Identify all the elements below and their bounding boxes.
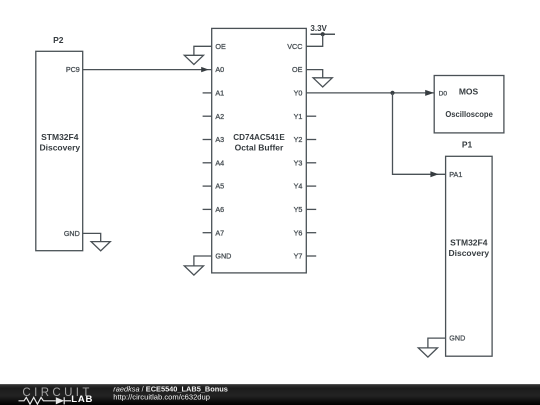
connector P2 STM32F4 Discovery [36, 35, 83, 251]
svg-text:http://circuitlab.com/c632dup: http://circuitlab.com/c632dup [113, 392, 210, 401]
svg-text:OE: OE [292, 65, 303, 74]
wire PC9 to A0 with arrow [83, 67, 212, 72]
ground (IC left OE) [184, 55, 203, 64]
pin OE (left) of IC [215, 42, 226, 51]
wire IC right OE to ground [306, 70, 322, 78]
svg-text:P1: P1 [462, 140, 473, 150]
svg-text:OE: OE [215, 42, 226, 51]
svg-text:Y4: Y4 [294, 182, 303, 191]
pin GND of P1 [449, 333, 465, 342]
IC CD74AC541E Octal Buffer [212, 28, 307, 273]
svg-text:A0: A0 [215, 65, 224, 74]
pin A3 of IC [203, 135, 225, 144]
wire IC GND to ground [194, 256, 212, 266]
svg-text:VCC: VCC [287, 42, 302, 51]
ground (IC GND) [184, 266, 203, 275]
svg-text:A2: A2 [215, 112, 224, 121]
svg-text:PA1: PA1 [449, 170, 462, 179]
pin PC9 of P2 [66, 65, 80, 74]
pin PA1 of P1 [449, 170, 462, 179]
pin A7 of IC [203, 228, 225, 237]
footer credit text [113, 384, 228, 393]
svg-text:Octal Buffer: Octal Buffer [235, 143, 284, 153]
footer url text [113, 392, 210, 401]
pin Y1 of IC [294, 112, 317, 121]
pin Y6 of IC [294, 228, 317, 237]
svg-text:Y2: Y2 [294, 135, 303, 144]
wire 3.3V to VCC [306, 34, 322, 46]
CircuitLab logo CIRCUIT [22, 387, 92, 399]
svg-text:CD74AC541E: CD74AC541E [233, 132, 285, 142]
wire Y0 net down to PA1 with arrow [393, 93, 446, 177]
ground (IC right OE) [313, 78, 332, 87]
svg-text:STM32F4: STM32F4 [450, 238, 488, 248]
svg-text:LAB: LAB [71, 394, 93, 405]
pin Y4 of IC [294, 182, 317, 191]
svg-text:A1: A1 [215, 89, 224, 98]
pin GND of P2 [64, 229, 80, 238]
svg-text:GND: GND [449, 333, 465, 342]
svg-text:Y5: Y5 [294, 205, 303, 214]
svg-text:3.3V: 3.3V [310, 24, 327, 33]
power supply 3.3V [310, 24, 335, 36]
svg-text:PC9: PC9 [66, 65, 80, 74]
svg-text:P2: P2 [53, 35, 64, 45]
svg-text:A6: A6 [215, 205, 224, 214]
svg-text:Y0: Y0 [294, 89, 303, 98]
svg-text:Y7: Y7 [294, 252, 303, 261]
svg-text:A4: A4 [215, 158, 224, 167]
pin Y0 of IC [294, 89, 303, 98]
wire P1 GND to ground [428, 338, 446, 348]
pin A5 of IC [203, 182, 225, 191]
svg-text:Oscilloscope: Oscilloscope [445, 109, 493, 119]
svg-text:Discovery: Discovery [448, 248, 489, 258]
junction node on Y0 net [390, 91, 394, 95]
svg-text:STM32F4: STM32F4 [41, 132, 79, 142]
pin A2 of IC [203, 112, 225, 121]
wire Y0 to oscilloscope D0 with arrow [306, 90, 434, 96]
svg-text:MOS: MOS [459, 87, 479, 97]
svg-text:Y3: Y3 [294, 158, 303, 167]
pin A0 of IC [215, 65, 224, 74]
wire IC left OE to ground [194, 46, 212, 55]
oscilloscope MOS [434, 76, 504, 133]
pin D0 of oscilloscope [439, 90, 448, 97]
connector P1 STM32F4 Discovery [446, 140, 493, 357]
svg-text:GND: GND [64, 229, 80, 238]
svg-text:Y1: Y1 [294, 112, 303, 121]
pin Y2 of IC [294, 135, 317, 144]
pin Y5 of IC [294, 205, 317, 214]
pin A1 of IC [203, 89, 225, 98]
pin Y7 of IC [294, 252, 317, 261]
pin A4 of IC [203, 158, 225, 167]
pin VCC of IC [287, 42, 302, 51]
footer bar [0, 384, 540, 405]
pin GND of IC [215, 252, 231, 261]
svg-text:D0: D0 [439, 90, 448, 97]
CircuitLab logo resistor zigzag and diode [19, 397, 72, 404]
pin A6 of IC [203, 205, 225, 214]
svg-text:Y6: Y6 [294, 228, 303, 237]
svg-text:A7: A7 [215, 228, 224, 237]
svg-text:GND: GND [215, 252, 231, 261]
pin OE (right) of IC [292, 65, 303, 74]
svg-text:A3: A3 [215, 135, 224, 144]
pin Y3 of IC [294, 158, 317, 167]
CircuitLab logo LAB [71, 394, 93, 405]
svg-text:A5: A5 [215, 182, 224, 191]
wire P2 GND to ground [83, 233, 101, 241]
ground (P1 GND) [418, 348, 437, 357]
ground (P2 GND) [91, 242, 110, 251]
svg-text:Discovery: Discovery [39, 143, 80, 153]
